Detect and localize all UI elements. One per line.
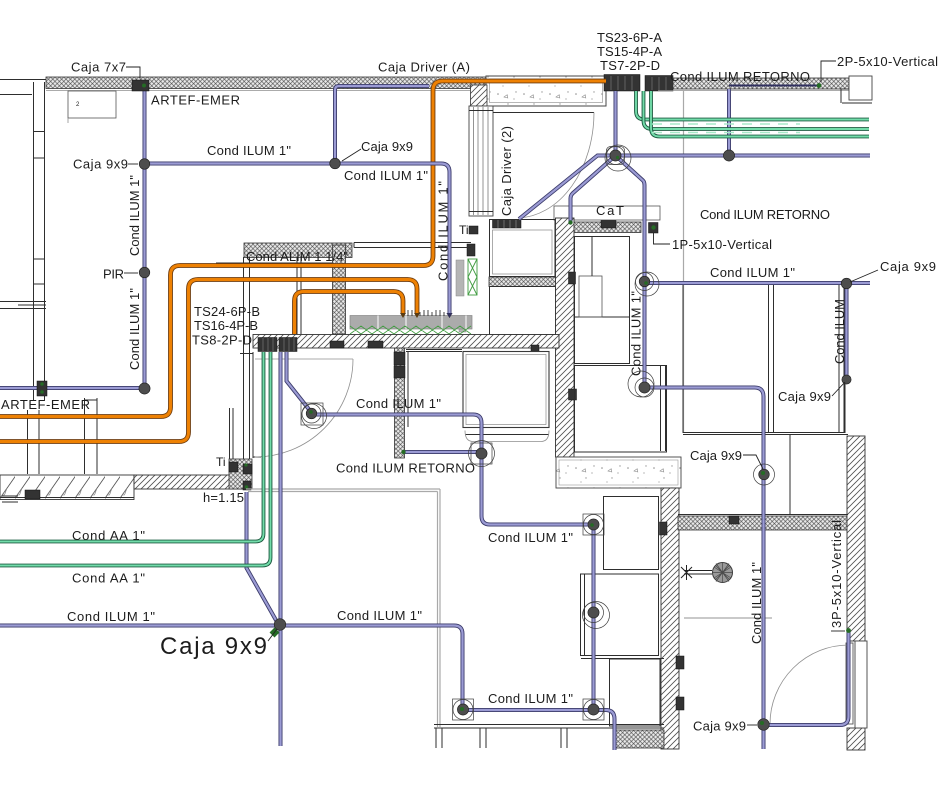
junction boxes on CaT wall	[601, 221, 616, 229]
door frame right	[855, 641, 867, 728]
svg-text:Cond ILUM 1": Cond ILUM 1"	[749, 562, 764, 644]
svg-text:Cond AA 1": Cond AA 1"	[72, 528, 145, 543]
orange conduit Caja Driver (A) feed	[0, 81, 606, 417]
TS box cluster top-right	[604, 75, 640, 92]
svg-text:Caja 9x9: Caja 9x9	[880, 259, 936, 274]
green terminal box 1P	[649, 223, 659, 234]
left wall lower jambs	[28, 398, 98, 474]
svg-text:Cond ILUM 1": Cond ILUM 1"	[488, 530, 573, 545]
purple bundle line 2 jog to fixture	[287, 352, 312, 413]
boxes on lower pillar	[394, 352, 405, 365]
svg-text:TS24-6P-B: TS24-6P-B	[194, 304, 260, 319]
svg-text:ARTEF-EMER: ARTEF-EMER	[151, 93, 240, 108]
purple riser to wall at Caja 9x9	[335, 86, 429, 164]
svg-text:Caja 9x9: Caja 9x9	[693, 719, 746, 734]
bottom hatch band	[614, 730, 664, 748]
svg-text:Caja 9x9: Caja 9x9	[73, 157, 128, 172]
svg-text:Caja Driver (2): Caja Driver (2)	[499, 126, 514, 216]
wall band small	[489, 277, 558, 287]
wall line under band	[46, 90, 470, 92]
green dot CaT	[568, 220, 572, 224]
bottom wall stalls	[434, 725, 664, 749]
green Cond AA 1	[0, 352, 264, 542]
fixture node center 2	[588, 607, 599, 618]
junction box Caja 7x7	[132, 80, 149, 91]
fan symbol	[681, 563, 733, 583]
bottom rooms	[604, 497, 659, 570]
wall B vertical hatched	[661, 488, 679, 749]
green top right row 2	[644, 91, 870, 129]
purple vertical right to node	[845, 283, 849, 379]
purple Cond ILUM horizontal to tablero	[145, 164, 450, 314]
wall box right end	[849, 76, 872, 100]
dark box on band	[25, 490, 40, 499]
top wall double lines	[354, 243, 471, 248]
purple diagonal to CaT	[571, 156, 616, 223]
green top right row 1	[636, 91, 869, 120]
room right-mid lower	[575, 366, 667, 453]
svg-text:Caja 7x7: Caja 7x7	[71, 60, 126, 75]
room inset box top-left	[68, 91, 116, 118]
purple retorno riser	[727, 89, 731, 156]
wall band below CaT	[572, 222, 641, 233]
node Caja 9x9 bottom right	[758, 719, 770, 731]
svg-text:Cond ILUM 1": Cond ILUM 1"	[207, 143, 291, 158]
boxes on wall A right edge	[569, 272, 576, 284]
purple big junction riser	[614, 91, 618, 156]
connection ticks on tablero	[408, 310, 444, 316]
left room door column	[230, 408, 234, 474]
green dot 3P vertical	[846, 628, 851, 633]
room below terminal	[490, 220, 556, 277]
junction box ARTEF-EMER	[37, 381, 47, 396]
big room right	[683, 284, 845, 433]
structural grid line	[683, 89, 685, 433]
svg-text:TS8-2P-D: TS8-2P-D	[192, 333, 252, 348]
box on right band	[729, 516, 739, 524]
green Cond AA 2	[0, 352, 271, 566]
svg-text:Cond ILUM RETORNO: Cond ILUM RETORNO	[336, 461, 475, 476]
hatch pillar mid	[333, 245, 346, 334]
svg-text:ARTEF-EMER: ARTEF-EMER	[1, 397, 90, 412]
svg-text:Caja 9x9: Caja 9x9	[690, 448, 742, 463]
lower-left wall band thick	[0, 475, 134, 500]
svg-text:Ti: Ti	[459, 223, 469, 237]
purple from node8 down long vertical	[645, 388, 764, 724]
wall A vertical hatched	[556, 218, 575, 457]
wall band right horizontal	[678, 516, 848, 530]
purple bundle line 1 to big node	[279, 352, 283, 746]
svg-text:Cond ALIM 1 1/4": Cond ALIM 1 1/4"	[246, 249, 348, 264]
svg-text:Cond ILUM 1": Cond ILUM 1"	[344, 168, 428, 183]
node Caja 9x9 mid right	[759, 469, 770, 480]
orange conduit to tablero (outer)	[0, 280, 417, 442]
svg-text:Cond AA 1": Cond AA 1"	[72, 571, 145, 586]
purple horizontal to Caja 9x9 right	[645, 281, 871, 285]
door arc bottom-left room	[255, 359, 353, 457]
svg-text:PIR: PIR	[103, 267, 124, 282]
lower-left wall band thin	[134, 475, 243, 489]
hatch pillar lower	[395, 348, 405, 458]
shower fixture box	[463, 352, 549, 428]
svg-text:Caja 9x9: Caja 9x9	[361, 139, 413, 154]
closet rooms right-mid	[575, 237, 630, 364]
node on retorno riser	[723, 150, 734, 161]
right wall upper hatched	[847, 436, 865, 641]
green dot 2P vertical	[817, 83, 822, 88]
svg-text:Cond ILUM 1": Cond ILUM 1"	[710, 265, 795, 280]
door leaf bottom-left room	[255, 358, 353, 360]
door frame column center top	[469, 106, 493, 216]
Ti h-box crosshatch	[229, 459, 252, 489]
long wall hatched horizontal	[253, 335, 559, 349]
node Caja 9x9 left	[139, 159, 150, 170]
big junction node	[610, 150, 621, 161]
left exterior wall	[34, 82, 45, 400]
purple Cond ILUM 1in horizontal right	[616, 154, 871, 158]
fixture node right upper	[639, 276, 650, 287]
arrow purple into tablero	[447, 313, 453, 318]
room mid-center	[490, 287, 556, 335]
node small right	[842, 375, 851, 384]
room walls verticals	[216, 257, 332, 474]
svg-text:Cond ILUM 1": Cond ILUM 1"	[337, 608, 422, 623]
svg-text:Cond ILUM: Cond ILUM	[832, 299, 847, 364]
speckle beam band mid	[556, 457, 681, 488]
purple diagonal down-right and vertical chain	[616, 156, 645, 389]
svg-text:Caja Driver (A): Caja Driver (A)	[378, 60, 470, 75]
green window brace	[468, 259, 477, 295]
box below Ti	[467, 244, 475, 256]
purple stub below bottom node	[762, 725, 766, 749]
door swing arc top-center	[518, 113, 594, 219]
arrows into tablero	[400, 313, 453, 318]
svg-text:TS23-6P-A: TS23-6P-A	[597, 30, 662, 45]
right wall lower hatched	[847, 728, 865, 750]
svg-text:Cond ILUM 1": Cond ILUM 1"	[356, 396, 441, 411]
purple from h-box jog to big node	[247, 492, 278, 622]
svg-text:2P-5x10-Vertical: 2P-5x10-Vertical	[837, 54, 938, 69]
CONDUITS	[0, 81, 870, 750]
tablero electrical panel	[350, 316, 472, 330]
purple diagonal to Caja Driver 2 terminal	[519, 156, 616, 220]
WALLS	[0, 75, 872, 751]
svg-text:Caja 9x9: Caja 9x9	[160, 633, 267, 660]
door arc right	[770, 645, 849, 724]
orange conduit short to tablero	[295, 292, 404, 335]
window left wall	[0, 302, 46, 309]
purple vertical fixture chain center	[592, 525, 596, 711]
purple Cond ILUM left vertical	[143, 89, 147, 389]
grey projection rectangle	[246, 489, 440, 727]
purple bottom right to 3P riser	[764, 631, 849, 725]
purple from fixture to retorno junction	[312, 415, 482, 454]
wall band top-right	[673, 78, 849, 89]
svg-text:Cond ILUM 1": Cond ILUM 1"	[488, 691, 573, 706]
node PIR	[139, 267, 150, 278]
svg-text:3P-5x10-Vertical: 3P-5x10-Vertical	[829, 520, 844, 628]
Cond ALIM room top band	[244, 243, 352, 258]
svg-text:Cond ILUM RETORNO: Cond ILUM RETORNO	[670, 69, 810, 84]
svg-text:Cond ILUM 1": Cond ILUM 1"	[67, 609, 155, 624]
fixture room edge lines	[406, 350, 462, 428]
svg-text:1P-5x10-Vertical: 1P-5x10-Vertical	[672, 237, 772, 252]
green brace row under tablero	[350, 326, 471, 334]
purple down then right to fixture	[482, 454, 594, 525]
Ti box	[469, 226, 478, 234]
fixture node mid-left	[306, 408, 317, 419]
svg-text:Caja 9x9: Caja 9x9	[778, 389, 831, 404]
svg-text:TS7-2P-D: TS7-2P-D	[600, 58, 660, 73]
CaT tray rectangle	[554, 206, 660, 220]
room line under beam	[493, 112, 594, 114]
node Caja 9x9 near driver	[330, 158, 341, 169]
svg-text:CaT: CaT	[596, 203, 624, 218]
purple stub down right of node16	[594, 710, 615, 750]
purple long bottom horizontal	[0, 626, 463, 710]
svg-text:TS15-4P-A: TS15-4P-A	[597, 44, 662, 59]
svg-text:Cond ILUM 1": Cond ILUM 1"	[127, 288, 142, 370]
beam speckled top-center	[486, 76, 606, 106]
right rooms below	[678, 435, 848, 515]
purple horizontal bottom fixtures	[463, 708, 594, 712]
boxes on long wall	[330, 341, 344, 348]
fixture node retorno junction	[476, 448, 487, 459]
grey grid line right	[684, 617, 772, 619]
wall top-left edge lines	[0, 80, 46, 95]
fixture node bottom left	[457, 704, 468, 715]
node corner ARTEF	[139, 383, 150, 394]
boxes on wall B	[660, 522, 668, 535]
green top right row 3	[651, 91, 869, 137]
fixture node center 3	[588, 704, 599, 715]
svg-text:Cond ILUM 1": Cond ILUM 1"	[127, 175, 142, 256]
bottom-left room outline and door	[240, 352, 261, 458]
door leaf right	[846, 643, 853, 724]
green dashed overlay	[652, 124, 800, 133]
purple ARTEF-EMER horizontal	[0, 386, 145, 390]
svg-text:Ti: Ti	[216, 455, 226, 469]
fixture node right lower	[639, 382, 650, 393]
svg-text:h=1.15: h=1.15	[203, 490, 244, 505]
svg-text:Cond ILUM RETORNO: Cond ILUM RETORNO	[700, 207, 830, 222]
wire retorno along wall	[729, 85, 818, 87]
terminal strip Caja Driver 2	[493, 220, 522, 229]
fixture node center 1	[588, 519, 599, 530]
wire top wall band left	[46, 77, 487, 89]
node Caja 9x9 right	[841, 278, 852, 289]
green dot retorno wall	[401, 450, 405, 454]
TS8 junction box row	[258, 338, 277, 352]
green dot 1P vertical	[651, 225, 655, 229]
hatch pillar left of beam	[471, 85, 488, 106]
grey bar + green window symbol	[456, 260, 464, 296]
grey bar lower	[459, 317, 466, 332]
svg-text:TS16-4P-B: TS16-4P-B	[194, 318, 258, 333]
purple retorno to wall	[405, 450, 482, 454]
svg-text:Cond ILUM 1": Cond ILUM 1"	[629, 291, 644, 376]
big node Caja 9x9 bottom	[274, 619, 286, 631]
